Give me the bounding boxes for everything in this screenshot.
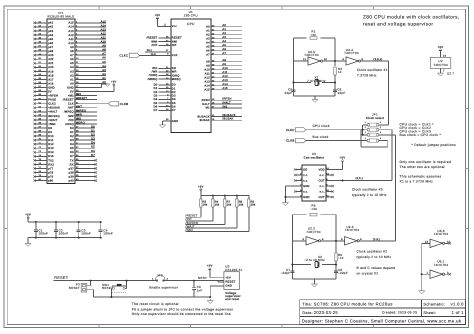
svg-text:WR: WR [172,71,177,74]
svg-text:CLK: CLK [172,54,178,57]
svg-text:GND: GND [303,185,310,188]
svg-text:p44: p44 [48,34,53,37]
svg-text:/HALT: /HALT [222,102,231,105]
svg-text:CLKB: CLKB [286,139,294,143]
svg-text:~22pF: ~22pF [281,271,291,275]
svg-text:D3: D3 [154,94,158,97]
svg-text:HALT: HALT [202,103,210,106]
svg-text:/BUSACK: /BUSACK [222,114,235,117]
svg-text:/RESET: /RESET [63,99,74,102]
svg-text:/BUSAK: /BUSAK [222,118,233,121]
svg-text:/NMI: /NMI [151,40,158,43]
svg-text:reset and voltage supervisor: reset and voltage supervisor [363,22,433,28]
svg-text:p48: p48 [48,50,53,53]
svg-text:A12: A12 [222,75,228,78]
svg-text:A11: A11 [101,36,107,39]
svg-text:PAGE: PAGE [48,99,56,102]
svg-text:1: 1 [365,137,366,140]
svg-text:* Default jumper positions: * Default jumper positions [412,143,457,147]
svg-text:Z80 CPU: Z80 CPU [184,14,198,18]
svg-text:D1: D1 [70,131,74,134]
svg-text:74HCT04: 74HCT04 [433,63,448,67]
svg-text:RX2: RX2 [48,163,54,166]
svg-text:BUSAK: BUSAK [200,119,210,122]
svg-text:<BUSAK: <BUSAK [48,107,60,110]
svg-text:D1: D1 [172,87,176,90]
svg-text:A5: A5 [102,61,106,64]
svg-text:D6: D6 [172,105,176,108]
svg-text:A5: A5 [222,44,226,47]
svg-text:/BUSRQ: /BUSRQ [48,115,60,118]
svg-text:1: 1 [365,126,366,129]
svg-text:A21: A21 [48,62,54,65]
svg-text:RX: RX [70,163,74,166]
svg-text:RESET: RESET [225,281,235,284]
svg-text:A19: A19 [48,70,54,73]
svg-text:14: 14 [443,54,447,57]
svg-text:A15: A15 [101,20,107,23]
svg-text:D6: D6 [154,105,158,108]
svg-text:A8: A8 [206,61,210,64]
svg-text:on crystal X2: on crystal X2 [357,272,379,276]
svg-text:RD: RD [172,67,176,70]
svg-text:1: 1 [365,131,366,134]
svg-text:p41: p41 [48,22,53,25]
svg-text:/IORQ: /IORQ [149,74,158,77]
svg-text:This schematic assumes: This schematic assumes [400,175,442,179]
svg-text:/INT: /INT [152,44,158,47]
svg-text:Bus clock: Bus clock [313,135,329,139]
svg-text:X1 is a 7.3728 MHz: X1 is a 7.3728 MHz [400,179,434,183]
svg-text:D14: D14 [48,151,54,154]
svg-text:typically 2 to 10 MHz: typically 2 to 10 MHz [357,255,392,259]
svg-text:A10: A10 [204,69,210,72]
svg-text:A9: A9 [222,63,226,66]
svg-text:p47: p47 [48,46,53,49]
svg-text:/RESET: /RESET [76,97,87,100]
svg-text:DS1233-5+: DS1233-5+ [225,268,242,272]
svg-text:A22: A22 [48,58,54,61]
svg-text:74HCT04: 74HCT04 [344,51,359,55]
svg-text:D3: D3 [70,139,74,142]
svg-text:A7: A7 [222,52,226,55]
svg-text:7: 7 [443,69,445,72]
svg-text:D15: D15 [48,155,54,158]
svg-text:NMI: NMI [172,40,178,43]
svg-text:/RD: /RD [76,117,81,120]
svg-text:/INT: /INT [68,107,74,110]
svg-text:/RFSH: /RFSH [222,98,231,101]
svg-text:<HALT: <HALT [48,111,57,114]
svg-text:D3: D3 [172,95,176,98]
svg-text:74HCT04: 74HCT04 [345,228,360,232]
svg-text:n.c.: n.c. [303,174,308,177]
svg-text:A13: A13 [101,28,107,31]
svg-text:100nF: 100nF [38,232,48,236]
svg-text:/RESET: /RESET [146,37,157,40]
svg-text:/M1: /M1 [76,93,81,96]
svg-text:A0: A0 [70,82,74,85]
svg-text:A1: A1 [70,78,74,81]
svg-text:A0: A0 [222,24,226,27]
svg-text:A6: A6 [206,50,210,53]
svg-text:A4: A4 [70,66,74,69]
svg-text:13: 13 [425,240,429,243]
svg-text:CLKC: CLKC [286,128,295,132]
svg-text:D7: D7 [70,155,74,158]
svg-text:A8: A8 [222,59,226,62]
svg-text:A2: A2 [222,32,226,35]
svg-text:1nF: 1nF [197,288,203,292]
svg-text:D0: D0 [70,127,74,130]
svg-text:/M1: /M1 [222,105,227,108]
svg-text:D2: D2 [91,134,95,137]
svg-text:A15: A15 [68,22,74,25]
svg-text:<NMI: <NMI [48,123,55,126]
svg-text:A6: A6 [102,57,106,60]
svg-text:D5: D5 [91,146,95,149]
svg-text:p43: p43 [48,30,53,33]
svg-text:D2: D2 [172,91,176,94]
svg-text:/NMI: /NMI [186,228,193,232]
svg-text:D0: D0 [172,84,176,87]
svg-text:A4: A4 [222,40,226,43]
svg-text:1: 1 [365,121,366,124]
svg-text:p77: p77 [48,167,53,170]
svg-text:/RD: /RD [152,67,157,70]
svg-text:p78: p78 [48,171,53,174]
svg-text:7.3728 MHz: 7.3728 MHz [357,74,377,78]
svg-text:n.c.: n.c. [303,179,308,182]
svg-text:10k: 10k [203,204,208,207]
svg-text:12: 12 [447,240,451,243]
svg-text:74HCT04: 74HCT04 [306,230,321,234]
svg-text:D0: D0 [154,84,158,87]
svg-text:A1: A1 [102,77,106,80]
svg-text:A14: A14 [68,26,74,29]
svg-text:The other two are optional: The other two are optional [400,165,445,169]
svg-text:TX2: TX2 [48,159,54,162]
svg-text:OE: OE [303,168,307,171]
svg-text:(3,8,1): (3,8,1) [374,58,383,61]
svg-text:D5: D5 [154,102,158,105]
svg-text:OUT: OUT [318,179,324,182]
svg-text:U2.7: U2.7 [447,71,454,75]
svg-text:D2: D2 [154,91,158,94]
svg-text:2: 2 [380,137,381,140]
svg-text:~2 to 10 MHz: ~2 to 10 MHz [304,258,325,262]
svg-text:A1: A1 [222,28,226,31]
svg-text:~1k: ~1k [338,256,344,260]
svg-text:D7: D7 [172,109,176,112]
svg-text:~1M: ~1M [310,207,317,211]
svg-text:p38: p38 [69,171,74,174]
svg-text:D0: D0 [91,125,95,128]
svg-text:+5V: +5V [111,80,116,83]
svg-text:p46: p46 [48,42,53,45]
svg-text:A13: A13 [222,79,228,82]
svg-text:22pF: 22pF [284,91,292,95]
svg-text:RESET: RESET [172,37,182,40]
svg-text:n.c.: n.c. [303,190,308,193]
svg-text:22pF: 22pF [338,91,346,95]
svg-text:A7: A7 [206,54,210,57]
svg-text:A14: A14 [222,83,228,86]
svg-text:D5: D5 [172,102,176,105]
svg-text:11: 11 [303,58,306,61]
svg-text:CLKC: CLKC [120,54,129,58]
svg-text:A9: A9 [102,45,106,48]
svg-text:RESET: RESET [54,276,69,280]
svg-text:A11: A11 [205,73,211,76]
svg-text:NRST: NRST [198,276,207,280]
svg-text:A8: A8 [70,50,74,53]
svg-text:INT: INT [172,44,177,47]
svg-text:R and C values depend: R and C values depend [357,266,396,270]
svg-text:/IORQ: /IORQ [65,123,74,126]
svg-text:A12: A12 [204,77,210,80]
svg-text:Sheet:: Sheet: [423,311,436,315]
svg-text:Z80 CPU module with clock osci: Z80 CPU module with clock oscillators, [363,14,460,20]
svg-text:+5V: +5V [340,156,346,160]
svg-text:10k: 10k [215,204,220,207]
svg-text:IORQ: IORQ [172,74,180,77]
svg-text:p37: p37 [69,167,74,170]
svg-text:A16: A16 [48,82,54,85]
svg-text:~22pF: ~22pF [338,271,348,275]
svg-text:Clock oscillator #3: Clock oscillator #3 [352,188,383,192]
svg-text:D4: D4 [70,143,74,146]
svg-text:/MREQ: /MREQ [148,78,158,81]
svg-text:p80: p80 [48,179,53,182]
svg-text:+5V: +5V [25,212,31,216]
svg-text:typically 2 to 10 MHz: typically 2 to 10 MHz [352,193,387,197]
svg-text:/MREQ: /MREQ [64,111,74,114]
svg-text:D3: D3 [91,138,95,141]
svg-text:/MREQ: /MREQ [76,109,86,112]
svg-text:A7: A7 [102,53,106,56]
svg-text:A3: A3 [222,36,226,39]
svg-text:/IORQ: /IORQ [76,121,85,124]
svg-text:2023-03-25: 2023-03-25 [314,310,339,315]
svg-text:100nF: 100nF [59,232,69,236]
svg-text:D10: D10 [48,135,54,138]
svg-text:D6: D6 [91,150,95,153]
svg-text:1k: 1k [338,70,342,74]
svg-text:D7: D7 [91,154,95,157]
svg-text:Schematic:: Schematic: [423,303,445,307]
svg-text:RESET: RESET [69,286,80,290]
svg-text:A13: A13 [204,81,210,84]
svg-text:2: 2 [447,271,449,274]
svg-text:A6: A6 [222,48,226,51]
svg-text:Date:: Date: [302,311,313,315]
svg-text:D5: D5 [70,147,74,150]
svg-text:The reset circuit is optional: The reset circuit is optional [132,302,179,306]
svg-text:A10: A10 [222,67,228,70]
svg-text:10k: 10k [227,204,232,207]
svg-text:SC706: Z80 CPU module for RC2B: SC706: Z80 CPU module for RC2Bus [314,302,393,307]
svg-text:Clock select: Clock select [366,116,384,120]
svg-text:A20: A20 [48,66,54,69]
svg-text:A4: A4 [102,65,106,68]
svg-text:A2: A2 [102,73,106,76]
svg-text:D4: D4 [91,142,95,145]
svg-text:<M1: <M1 [68,95,74,98]
svg-text:A15: A15 [222,87,228,90]
svg-text:D9: D9 [48,131,52,134]
svg-text:5V: 5V [70,90,74,93]
svg-text:A13: A13 [68,30,74,33]
svg-text:A7: A7 [70,54,74,57]
svg-text:A9: A9 [206,65,210,68]
svg-text:p45: p45 [48,38,53,41]
svg-text:A14: A14 [204,85,210,88]
svg-text:A1: A1 [206,30,210,33]
svg-text:A3: A3 [206,38,210,41]
svg-text:CLK: CLK [151,53,156,56]
svg-text:CLK2: CLK2 [48,103,56,106]
svg-text:/WR: /WR [152,71,158,74]
svg-text:Can oscillator: Can oscillator [304,156,325,160]
svg-text:A11: A11 [222,71,228,74]
svg-text:11: 11 [164,24,167,27]
svg-text:CPU clock: CPU clock [313,124,330,128]
svg-text:7.3728 MHz: 7.3728 MHz [307,79,326,83]
svg-text:A8: A8 [102,49,106,52]
svg-text:/WR: /WR [68,115,74,118]
svg-text:GND: GND [172,120,179,123]
svg-text:Clock oscillator #2: Clock oscillator #2 [357,250,388,254]
svg-text:74HCT04: 74HCT04 [434,263,449,267]
svg-text:RCBUS-80 MALE: RCBUS-80 MALE [48,15,75,19]
svg-text:Created: 2023-03-25: Created: 2023-03-25 [382,311,417,315]
svg-text:/WR: /WR [76,113,82,116]
svg-text:D1: D1 [91,130,95,133]
svg-text:D1: D1 [154,87,158,90]
svg-text:A10: A10 [68,42,74,45]
svg-text:n.c.: n.c. [320,190,325,193]
svg-text:100nF: 100nF [81,232,91,236]
svg-text:A10: A10 [101,41,107,44]
svg-text:+5V: +5V [207,264,213,268]
svg-text:74HCT04: 74HCT04 [304,53,319,57]
svg-text:2: 2 [380,126,381,129]
svg-text:2: 2 [380,131,381,134]
svg-text:PH1: PH1 [147,49,153,52]
svg-text:D2: D2 [70,135,74,138]
svg-text:n.c.: n.c. [320,174,325,177]
svg-text:CPU: CPU [187,22,195,26]
svg-text:/RD: /RD [69,119,74,122]
svg-text:D13: D13 [48,147,54,150]
svg-text:Vcc: Vcc [172,25,178,28]
svg-text:1 of 1: 1 of 1 [452,310,465,315]
svg-text:Designer: Stephen C Cousins, S: Designer: Stephen C Cousins, Small Compu… [302,319,462,324]
svg-text:D6: D6 [70,151,74,154]
svg-text:A15: A15 [204,89,210,92]
svg-text:D7: D7 [154,109,158,112]
svg-text:(1,6,): (1,6,) [373,238,380,241]
svg-text:+5V: +5V [198,184,204,188]
svg-text:A14: A14 [101,24,107,27]
svg-text:A5: A5 [70,62,74,65]
svg-text:Title:: Title: [302,303,312,307]
svg-text:OUT: OUT [318,196,324,199]
svg-text:A5: A5 [206,46,210,49]
svg-text:CLK: CLK [68,103,74,106]
svg-text:+5V: +5V [155,13,161,17]
svg-text:5V: 5V [48,90,52,93]
svg-text:TX: TX [70,159,74,162]
svg-text:A9: A9 [70,46,74,49]
svg-text:74HCT04: 74HCT04 [434,232,449,236]
svg-text:p40: p40 [69,179,74,182]
svg-text:1M: 1M [311,33,316,37]
svg-text:<WAIT: <WAIT [48,119,57,122]
svg-text:MREQ: MREQ [172,78,181,81]
svg-text:<RFSH: <RFSH [48,95,58,98]
svg-text:and reset: and reset [225,297,239,301]
svg-text:CLKB: CLKB [120,102,128,106]
svg-text:10k: 10k [239,204,244,207]
svg-text:D12: D12 [48,143,54,146]
svg-text:+5V: +5V [225,277,231,280]
svg-text:100nF: 100nF [103,232,113,236]
svg-text:2: 2 [380,121,381,124]
svg-text:A4: A4 [206,42,210,45]
svg-text:p39: p39 [69,175,74,178]
svg-text:A11: A11 [69,38,75,41]
svg-text:A6: A6 [70,58,74,61]
svg-text:Bus clock = CPU clock *: Bus clock = CPU clock * [400,133,442,137]
svg-text:+5V: +5V [438,45,444,49]
svg-text:A12: A12 [68,34,74,37]
svg-text:/INT: /INT [76,105,82,108]
svg-text:D8: D8 [48,127,52,130]
svg-text:Fit a jumper shunt to JP2 to c: Fit a jumper shunt to JP2 to connect the… [132,307,234,311]
svg-text:n.c.: n.c. [320,185,325,188]
svg-text:10k: 10k [251,204,256,207]
svg-text:A23: A23 [48,54,54,57]
svg-text:D4: D4 [172,98,176,101]
svg-text:A12: A12 [101,32,107,35]
svg-text:p42: p42 [48,26,53,29]
svg-text:A17: A17 [48,78,54,81]
svg-text:A2: A2 [206,34,210,37]
svg-text:(3,6,): (3,6,) [356,177,363,180]
svg-text:p79: p79 [48,175,53,178]
svg-text:GND: GND [225,285,232,288]
svg-text:VDD: VDD [318,168,324,171]
svg-text:BUSACK: BUSACK [197,115,209,118]
svg-text:RFSH: RFSH [202,99,210,102]
svg-text:GND: GND [67,86,74,89]
svg-text:Only one supervisor should be: Only one supervisor should be connected … [132,312,231,316]
svg-text:Clock oscillator #1: Clock oscillator #1 [357,68,388,72]
svg-text:A0: A0 [206,26,210,29]
svg-text:D11: D11 [48,139,54,142]
svg-text:M1: M1 [206,107,210,110]
svg-text:Only one oscillator is require: Only one oscillator is required [400,160,452,164]
svg-text:A18: A18 [48,74,54,77]
svg-text:GND: GND [303,196,310,199]
svg-text:D4: D4 [154,98,158,101]
svg-text:A3: A3 [70,70,74,73]
svg-text:A2: A2 [70,74,74,77]
svg-text:v1.0.0: v1.0.0 [451,302,465,307]
svg-text:Enable supervisor: Enable supervisor [149,285,178,289]
